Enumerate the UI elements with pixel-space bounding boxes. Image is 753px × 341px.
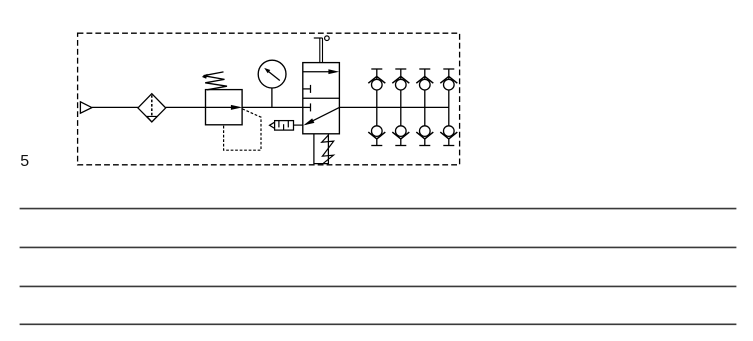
ruled line 4 <box>20 323 737 325</box>
dashed enclosure frame <box>78 33 460 165</box>
valve open position flow arrow <box>303 71 331 73</box>
manifold wire <box>339 106 448 108</box>
pressure regulator body <box>206 90 243 125</box>
svg-text:5: 5 <box>20 153 29 170</box>
valve top blocked port <box>303 88 311 90</box>
ruled line 2 <box>20 246 737 248</box>
exhaust silencer <box>275 121 294 131</box>
valve return spring box <box>314 134 329 164</box>
coupling socket 4 top <box>440 69 457 107</box>
filter with water separator <box>138 94 166 122</box>
compressed air source triangle <box>80 102 92 113</box>
valve position divider <box>303 97 340 99</box>
wire filter to regulator <box>166 106 206 108</box>
coupling socket 1 bottom <box>368 107 385 145</box>
coupling socket 2 bottom <box>392 107 409 145</box>
coupling socket 2 top <box>392 69 409 107</box>
regulator pilot dashed line <box>224 109 261 150</box>
ruled line 1 <box>20 208 737 210</box>
pressure gauge <box>258 60 286 88</box>
3/2-way valve body <box>303 63 340 134</box>
valve exhaust diagonal <box>306 107 340 124</box>
valve actuator knob circle <box>325 36 330 41</box>
wire silencer to valve <box>294 124 304 126</box>
regulator flow arrow <box>206 106 234 108</box>
gauge stem <box>271 88 273 107</box>
coupling socket 4 bottom <box>440 107 457 145</box>
silencer inlet triangle <box>270 122 275 128</box>
wire regulator to valve <box>242 106 302 108</box>
coupling socket 3 bottom <box>416 107 433 145</box>
valve return spring <box>322 135 334 163</box>
coupling socket 3 top <box>416 69 433 107</box>
valve bottom blocked port <box>303 106 311 108</box>
regulator adjustment spring <box>204 72 228 90</box>
regulator spring arrowhead <box>202 74 208 79</box>
coupling socket 1 top <box>368 69 385 107</box>
wire source to filter <box>92 106 138 108</box>
gauge needle <box>267 71 280 81</box>
valve actuator stem <box>319 38 321 63</box>
ruled line 3 <box>20 285 737 287</box>
